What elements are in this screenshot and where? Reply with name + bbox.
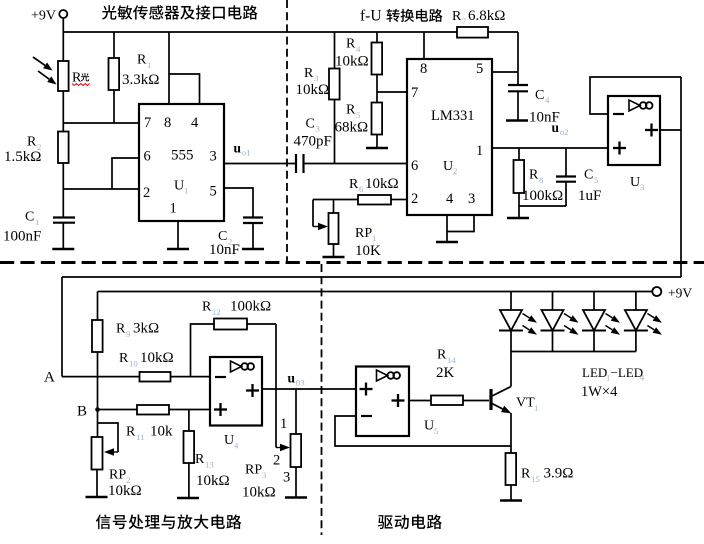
svg-text:RP: RP: [245, 463, 262, 478]
svg-text:B: B: [77, 404, 87, 420]
svg-text:3: 3: [210, 149, 217, 165]
svg-text:u: u: [234, 141, 242, 156]
ground (C2): [242, 248, 264, 251]
resistor R9: [92, 292, 103, 438]
wire pin1 output uo2: [492, 147, 608, 149]
svg-text:10: 10: [129, 359, 138, 369]
terminal +9V top-left: [31, 9, 67, 33]
svg-text:3: 3: [262, 470, 267, 480]
svg-text:10kΩ: 10kΩ: [335, 54, 369, 70]
feedback wire U5: [335, 416, 511, 446]
capacitor C5: [556, 148, 576, 206]
svg-text:4: 4: [234, 441, 239, 451]
pin label 6: [144, 149, 151, 165]
label node B: [77, 404, 87, 420]
svg-text:7: 7: [411, 85, 418, 101]
wire emitter: [510, 413, 512, 446]
svg-text:R: R: [126, 425, 136, 440]
svg-text:2: 2: [143, 185, 150, 201]
label uo3: [288, 371, 306, 388]
svg-text:o1: o1: [242, 148, 251, 158]
svg-text:R: R: [137, 53, 147, 68]
svg-text:4: 4: [545, 95, 550, 105]
svg-text:1uF: 1uF: [578, 188, 601, 204]
svg-text:6: 6: [144, 149, 151, 165]
plus output U4: [246, 384, 259, 397]
svg-text:9: 9: [126, 329, 131, 339]
svg-text:u: u: [552, 120, 560, 135]
svg-text:10kΩ: 10kΩ: [296, 82, 330, 98]
svg-text:R: R: [304, 66, 314, 81]
wire collector: [510, 352, 512, 387]
amp symbol U4: [231, 361, 255, 372]
svg-text:1W×4: 1W×4: [581, 384, 618, 400]
wire node pin7 row: [63, 122, 139, 124]
svg-text:2: 2: [453, 166, 457, 176]
svg-text:12: 12: [212, 307, 221, 317]
svg-text:6: 6: [359, 184, 364, 194]
label R6: [349, 176, 399, 194]
svg-text:10nF: 10nF: [209, 242, 240, 258]
resistor R3: [329, 32, 340, 164]
wire pin5 stub: [492, 71, 518, 73]
LED4: [624, 292, 648, 352]
svg-text:1: 1: [476, 143, 483, 159]
ground (R15): [500, 499, 522, 502]
title 驱动电路: [378, 514, 442, 529]
wire +9V bottom rail: [98, 291, 653, 293]
wire pin8 to bus: [423, 32, 425, 59]
capacitor C1: [53, 189, 75, 249]
svg-text:R: R: [346, 103, 356, 118]
svg-text:5: 5: [210, 184, 217, 200]
label RP3: [242, 463, 276, 501]
svg-text:10k: 10k: [150, 424, 173, 440]
pin label 1: [170, 201, 177, 217]
pin label 7: [411, 85, 418, 101]
wire node A row: [62, 376, 140, 378]
label RP3 pin1: [280, 416, 287, 432]
svg-text:4: 4: [356, 44, 361, 54]
wire uo2 across bottom: [62, 277, 681, 377]
potentiometer RP3: [291, 389, 302, 498]
ground (R5): [366, 147, 388, 150]
svg-text:1: 1: [170, 201, 177, 217]
label U4: [224, 433, 239, 451]
svg-text:10kΩ: 10kΩ: [365, 176, 399, 192]
svg-text:C: C: [584, 168, 593, 183]
plus input U3: [613, 142, 626, 155]
svg-text:2: 2: [273, 453, 280, 469]
label LED1-LED4: [582, 365, 645, 383]
label C5: [578, 168, 601, 205]
label R8: [522, 168, 563, 205]
svg-text:3: 3: [283, 470, 290, 486]
op-amp U5: [356, 367, 409, 437]
resistor R13: [184, 410, 195, 499]
svg-text:f-U: f-U: [360, 8, 382, 25]
label RP3 pin3: [283, 470, 290, 486]
svg-text:03: 03: [296, 378, 305, 388]
light arrows at Rg: [33, 57, 57, 85]
minus input U3: [613, 113, 624, 115]
amp symbol U3: [629, 100, 653, 111]
svg-text:1: 1: [534, 403, 538, 413]
ground (C1): [52, 248, 74, 251]
pin label 1: [476, 143, 483, 159]
wire pin6-pin2 tie: [112, 158, 139, 189]
LED2: [541, 292, 565, 352]
LED3: [582, 292, 606, 352]
svg-text:1: 1: [184, 186, 188, 196]
svg-text:LM331: LM331: [431, 108, 475, 124]
label C4: [529, 88, 560, 126]
svg-text:o2: o2: [560, 127, 569, 137]
svg-text:10kΩ: 10kΩ: [242, 485, 276, 501]
svg-text:1: 1: [147, 60, 151, 70]
svg-text:100nF: 100nF: [3, 229, 41, 245]
op-amp U3: [608, 96, 660, 165]
svg-text:R: R: [349, 177, 359, 192]
svg-text:R: R: [452, 9, 462, 24]
label uo1: [234, 141, 251, 158]
svg-text:1: 1: [280, 416, 287, 432]
wiper arrow RP3: [276, 444, 290, 451]
svg-text:10kΩ: 10kΩ: [196, 473, 230, 489]
title 光敏传感器及接口电路: [102, 5, 258, 19]
svg-text:14: 14: [447, 355, 456, 365]
label U1: [174, 179, 188, 196]
svg-text:100kΩ: 100kΩ: [522, 188, 563, 204]
wire pin5 to C2: [224, 188, 253, 218]
svg-text:3: 3: [640, 182, 645, 192]
light arrows LED4: [647, 314, 662, 335]
terminal +9V bottom right: [652, 286, 692, 301]
label VT1: [516, 396, 538, 414]
wire pin4 to bus: [169, 74, 200, 104]
capacitor C4: [508, 85, 528, 121]
plus output U3: [645, 124, 658, 137]
label RP1: [355, 226, 381, 259]
label R13: [195, 452, 230, 489]
svg-text:5: 5: [356, 110, 361, 120]
resistor R7: [457, 27, 518, 85]
ground (R13): [177, 497, 199, 500]
svg-text:+9V: +9V: [31, 9, 56, 24]
svg-text:5: 5: [434, 426, 439, 436]
minus input U5: [361, 415, 372, 417]
resistor R8: [514, 148, 525, 206]
svg-text:−LED: −LED: [611, 365, 644, 380]
wire LED cathode bus: [511, 351, 636, 353]
label RP2: [108, 468, 142, 500]
ground (555 pin1): [167, 248, 189, 251]
ground (C4): [506, 119, 528, 122]
plus output U5: [392, 394, 405, 407]
svg-text:C: C: [25, 210, 34, 225]
label uo2: [552, 120, 569, 137]
svg-text:4: 4: [191, 115, 199, 131]
label R12: [202, 299, 271, 318]
svg-text:u: u: [288, 371, 296, 386]
svg-text:10kΩ: 10kΩ: [140, 350, 174, 366]
feedback wire U3: [590, 77, 681, 114]
wire pin2 row: [63, 188, 139, 190]
svg-text:68kΩ: 68kΩ: [335, 120, 369, 136]
pin label 3: [468, 191, 475, 207]
wire R8-C5 bottom: [519, 205, 566, 207]
potentiometer RP1: [329, 200, 339, 258]
label R15: [521, 466, 573, 485]
divider dashed vertical (bottom sections): [321, 264, 323, 535]
photoresistor Rg: [58, 32, 69, 123]
svg-text:3kΩ: 3kΩ: [133, 321, 159, 337]
potentiometer RP2: [92, 437, 103, 497]
svg-text:R: R: [346, 37, 356, 52]
light arrows LED1: [523, 314, 538, 335]
svg-text:RP: RP: [355, 226, 372, 241]
resistor R14: [431, 396, 489, 406]
svg-text:3.9Ω: 3.9Ω: [544, 466, 574, 482]
pin label 6: [411, 158, 418, 174]
wire pins 4-3 to ground: [447, 215, 474, 242]
label R3: [296, 66, 330, 98]
pin labels 555 top: [144, 115, 199, 131]
svg-text:+9V: +9V: [668, 286, 692, 301]
label U5: [424, 419, 439, 437]
wire U3 output down: [660, 77, 681, 277]
svg-text:3: 3: [316, 124, 321, 134]
svg-text:LED: LED: [582, 365, 607, 380]
svg-text:13: 13: [205, 460, 214, 470]
svg-text:U: U: [224, 433, 234, 448]
light arrows LED3: [606, 314, 621, 335]
resistor R10: [140, 372, 211, 382]
pin label 2: [143, 185, 150, 201]
svg-text:100kΩ: 100kΩ: [230, 299, 271, 315]
label C3: [294, 117, 332, 150]
pin label 5: [210, 184, 217, 200]
ground (RP2): [86, 496, 108, 499]
label R10: [119, 350, 174, 369]
label U3: [630, 175, 645, 192]
ground (R8): [507, 206, 529, 218]
divider dashed horizontal: [0, 261, 704, 264]
wiper arrow RP2: [98, 423, 118, 456]
IC LM331 U2: [407, 59, 492, 215]
resistor R11: [137, 405, 210, 415]
svg-text:U: U: [443, 159, 453, 174]
svg-text:R: R: [202, 300, 212, 315]
resistor R4: [372, 32, 383, 92]
pin label 4: [446, 191, 454, 207]
svg-text:2: 2: [411, 191, 418, 207]
svg-text:A: A: [44, 370, 55, 386]
svg-text:470pF: 470pF: [294, 134, 332, 150]
label 1W×4: [581, 384, 618, 400]
label LM331: [431, 108, 475, 124]
divider dashed vertical (top sections): [286, 0, 288, 261]
LED1: [499, 292, 523, 352]
svg-text:R: R: [116, 322, 126, 337]
plus input U4: [214, 403, 227, 416]
svg-text:6.8kΩ: 6.8kΩ: [468, 8, 505, 24]
plus input U5: [360, 383, 373, 396]
capacitor C2: [243, 218, 263, 250]
light arrows LED2: [564, 314, 579, 335]
pin label 3: [210, 149, 217, 165]
svg-text:3: 3: [468, 191, 475, 207]
svg-text:5: 5: [594, 175, 599, 185]
svg-text:1: 1: [35, 217, 39, 227]
wire uo3 row: [262, 388, 356, 390]
resistor R1: [109, 32, 120, 123]
transistor VT1: [491, 387, 512, 414]
label C1: [3, 210, 41, 245]
svg-text:3.3kΩ: 3.3kΩ: [122, 72, 159, 88]
wire R12 right leg: [275, 324, 277, 448]
svg-text:4: 4: [446, 191, 454, 207]
label Rg: [72, 71, 90, 86]
pin label 5: [476, 61, 483, 77]
ground (LM331): [436, 241, 458, 244]
label R7: [452, 8, 505, 26]
wire pin7 row LM331: [377, 91, 407, 93]
svg-text:U: U: [630, 175, 640, 190]
label RP3 pin2: [273, 453, 280, 469]
svg-text:6: 6: [411, 158, 418, 174]
capacitor C3: [296, 154, 407, 173]
resistor R15: [506, 446, 517, 501]
label 555: [171, 148, 194, 164]
amp symbol U5: [377, 370, 401, 381]
op-amp U4: [210, 357, 262, 426]
svg-text:7: 7: [462, 16, 467, 26]
svg-text:VT: VT: [516, 396, 535, 411]
wire pin8 to bus: [168, 32, 170, 104]
svg-text:2K: 2K: [436, 365, 455, 381]
svg-text:C: C: [306, 117, 315, 132]
svg-text:555: 555: [171, 148, 194, 164]
minus input U4: [215, 376, 226, 378]
title f-U 转换电路: [360, 8, 443, 25]
title 信号处理与放大电路: [96, 514, 241, 529]
wire node B row: [98, 409, 138, 411]
resistor R2: [58, 123, 69, 189]
svg-text:1: 1: [372, 233, 376, 243]
svg-text:R: R: [529, 168, 539, 183]
svg-text:8: 8: [539, 175, 544, 185]
svg-text:11: 11: [136, 432, 144, 442]
svg-text:R: R: [521, 467, 531, 482]
wire U5 output: [409, 400, 431, 402]
label R2: [4, 135, 41, 166]
svg-text:C: C: [535, 88, 544, 103]
svg-text:1.5kΩ: 1.5kΩ: [4, 149, 41, 165]
label U2: [443, 159, 457, 176]
label R11: [126, 424, 173, 443]
svg-text:8: 8: [164, 115, 171, 131]
label R4: [335, 37, 369, 70]
label R9: [116, 321, 159, 340]
resistor R6: [313, 195, 407, 205]
wire pin3 output uo1: [224, 163, 296, 165]
resistor R12: [191, 319, 277, 377]
svg-text:10kΩ: 10kΩ: [108, 483, 142, 499]
wire +9V top bus: [63, 31, 457, 33]
resistor R5: [372, 92, 383, 148]
pin label 8: [420, 61, 427, 77]
svg-text:R: R: [437, 348, 447, 363]
svg-text:7: 7: [144, 115, 151, 131]
svg-text:R: R: [27, 135, 37, 150]
svg-text:R: R: [195, 452, 205, 467]
ground (RP1): [323, 256, 345, 259]
pin label 2: [411, 191, 418, 207]
label R1: [122, 53, 159, 89]
label C2: [209, 229, 240, 258]
svg-text:RP: RP: [109, 468, 126, 483]
label R14: [436, 348, 456, 382]
svg-text:10K: 10K: [355, 243, 381, 259]
label R5: [335, 103, 369, 136]
wire pin1 to ground: [177, 221, 179, 249]
svg-text:U: U: [424, 419, 434, 434]
svg-text:R: R: [119, 351, 129, 366]
wiper arrow RP1: [313, 200, 328, 231]
ground (RP3): [285, 496, 307, 499]
svg-text:5: 5: [476, 61, 483, 77]
label node A: [44, 370, 55, 386]
svg-text:U: U: [174, 179, 184, 194]
IC 555 U1: [139, 104, 224, 221]
svg-text:15: 15: [531, 474, 540, 484]
svg-text:8: 8: [420, 61, 427, 77]
junction node B: [95, 407, 100, 412]
